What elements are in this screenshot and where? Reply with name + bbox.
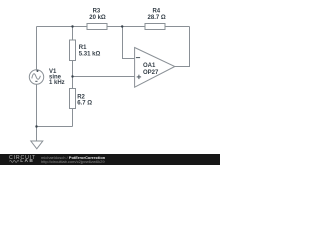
op-amp plus sign — [137, 76, 141, 78]
svg-text:OP27: OP27 — [143, 70, 159, 76]
CircuitLab logo text CIRCUIT — [9, 155, 36, 161]
footer url line — [41, 159, 105, 164]
svg-text:OA1: OA1 — [143, 63, 156, 69]
resistor R3 — [87, 24, 107, 30]
op-amp OA1 triangle — [135, 48, 175, 88]
wire R1 top lead — [72, 27, 74, 41]
ground — [31, 141, 43, 149]
source plus sign — [36, 70, 38, 72]
node junction feedback/top rail — [121, 25, 123, 27]
source V1 sine — [32, 74, 41, 80]
wire right vertical to output — [175, 27, 190, 67]
source V1 circle — [29, 70, 43, 84]
svg-text:R3: R3 — [93, 9, 101, 15]
node junction bottom — [35, 125, 37, 127]
wire node B to R2 top — [72, 77, 74, 89]
svg-text:20 kΩ: 20 kΩ — [89, 15, 106, 21]
CircuitLab logo sine squiggle — [9, 159, 20, 164]
op-amp minus sign — [136, 57, 140, 59]
source minus sign — [35, 80, 37, 82]
resistor R4 — [145, 24, 165, 30]
node junction R1/top rail — [71, 25, 73, 27]
resistor R2 — [70, 89, 76, 109]
resistor R1 — [70, 40, 76, 61]
wire left vertical top (node A to V1) — [36, 27, 38, 70]
wire R1 bottom to node B — [72, 61, 74, 77]
svg-text:5.31 kΩ: 5.31 kΩ — [79, 51, 101, 57]
svg-text:R1: R1 — [79, 45, 87, 51]
footer credit line — [41, 155, 105, 160]
svg-text:6.7 Ω: 6.7 Ω — [77, 100, 92, 106]
wire bottom horizontal — [37, 126, 73, 128]
svg-text:R4: R4 — [152, 9, 160, 15]
wire V1 bottom to bottom node — [36, 84, 38, 126]
wire R2 bottom lead — [72, 109, 74, 127]
wire feedback from node C to inverting input — [123, 27, 135, 59]
svg-text:28.7 Ω: 28.7 Ω — [148, 15, 166, 21]
wire top rail right segment — [165, 26, 190, 28]
wire ground lead — [36, 127, 38, 142]
node junction R1/R2 — [71, 75, 73, 77]
CircuitLab logo text LAB — [20, 159, 34, 164]
footer bar — [0, 154, 220, 165]
svg-text:1 kHz: 1 kHz — [49, 80, 65, 86]
wire node B to non-inverting input — [73, 76, 135, 78]
wire top rail left segment — [37, 26, 88, 28]
wire top rail mid segment — [107, 26, 145, 28]
